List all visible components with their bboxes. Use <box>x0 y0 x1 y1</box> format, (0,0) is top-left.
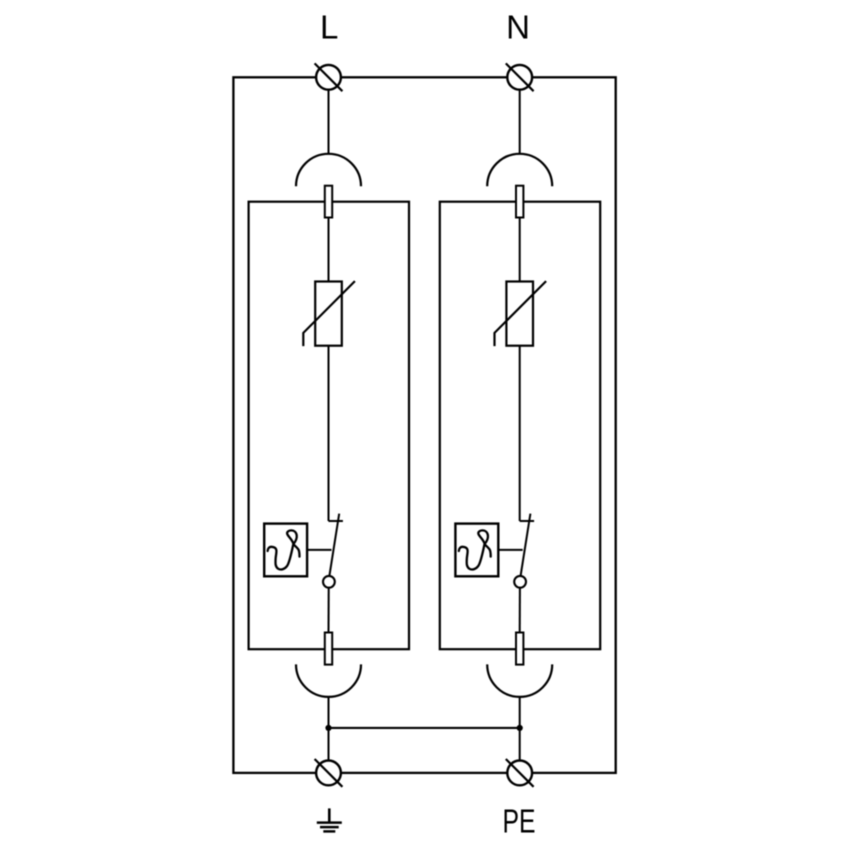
svg-text:N: N <box>506 9 530 46</box>
svg-text:PE: PE <box>503 802 536 839</box>
svg-text:L: L <box>320 9 338 46</box>
